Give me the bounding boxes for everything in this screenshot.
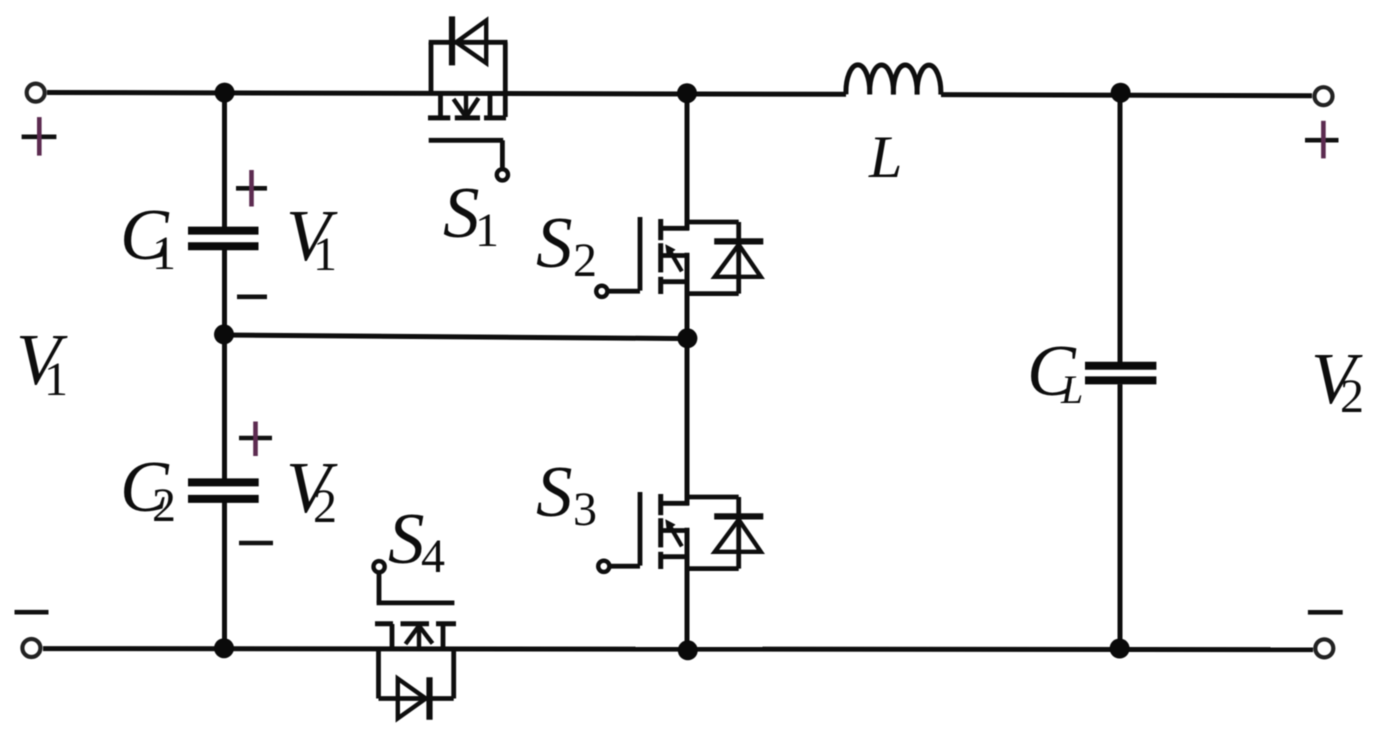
label V1 outer xyxy=(16,319,68,406)
label V1 inner xyxy=(286,195,338,281)
wire C1 to mid node xyxy=(222,250,227,479)
plus sign top-right xyxy=(1305,121,1339,159)
label S1 xyxy=(443,172,499,257)
svg-text:S: S xyxy=(536,202,573,283)
inductor L xyxy=(846,65,941,95)
svg-text:1: 1 xyxy=(152,227,176,280)
svg-text:2: 2 xyxy=(573,234,597,287)
junction node top-right xyxy=(1111,83,1131,103)
wire top rail xyxy=(47,93,846,95)
capacitor CL xyxy=(1085,366,1156,381)
label V2 outer xyxy=(1311,338,1364,423)
label C1 xyxy=(120,194,176,280)
wire bottom rail xyxy=(43,649,1313,650)
wire S-branch drain S1S2 xyxy=(685,93,690,231)
svg-text:2: 2 xyxy=(313,480,337,533)
terminal top-right xyxy=(1315,87,1333,105)
svg-text:1: 1 xyxy=(475,204,499,257)
label CL xyxy=(1027,330,1083,412)
wire C2 to bottom rail xyxy=(222,502,227,648)
plus sign above C2 xyxy=(239,422,272,457)
transistor S1 (MOSFET with body diode, in top rail) xyxy=(428,16,508,180)
transistor S4 (MOSFET with body diode, in bottom rail) xyxy=(374,561,457,720)
svg-text:1: 1 xyxy=(44,353,68,406)
svg-text:3: 3 xyxy=(573,483,597,536)
svg-text:4: 4 xyxy=(421,530,445,583)
junction node bottom-S xyxy=(678,640,698,660)
label V2 inner xyxy=(286,447,338,533)
junction node mid-left xyxy=(214,324,234,344)
minus sign bottom-right xyxy=(1308,610,1343,615)
label S3 xyxy=(536,451,597,536)
transistor S3 (MOSFET with body diode, vertical) xyxy=(598,492,763,572)
svg-text:L: L xyxy=(1060,367,1083,412)
plus sign top-left xyxy=(22,117,57,156)
label S2 xyxy=(536,202,597,287)
terminal bottom-right xyxy=(1315,639,1333,657)
wire left branch upper xyxy=(222,93,227,228)
wire S-branch S2 to S3 xyxy=(685,253,690,506)
svg-text:2: 2 xyxy=(1340,370,1364,423)
transistor S2 (MOSFET with body diode, vertical) xyxy=(596,217,763,297)
wire right branch upper xyxy=(1118,94,1123,363)
label C2 xyxy=(120,446,176,532)
svg-text:L: L xyxy=(868,124,902,190)
wire S-branch S3 source to bottom xyxy=(685,528,690,649)
wire middle node xyxy=(224,335,687,339)
label S4 xyxy=(388,498,445,583)
svg-text:S: S xyxy=(388,498,425,579)
minus sign bottom-left xyxy=(15,610,49,615)
svg-text:S: S xyxy=(536,451,573,532)
junction node mid-S xyxy=(677,328,697,348)
plus sign above C1 xyxy=(236,170,267,207)
terminal top-left xyxy=(27,84,45,102)
junction node bottom-left xyxy=(214,638,234,658)
wire right branch lower xyxy=(1118,384,1123,648)
junction node bottom-right xyxy=(1110,639,1130,659)
minus sign below C2 xyxy=(239,541,273,546)
svg-text:2: 2 xyxy=(152,479,176,532)
junction node top-mid xyxy=(677,83,697,103)
svg-text:1: 1 xyxy=(313,228,337,281)
capacitor C1 xyxy=(188,231,259,247)
capacitor C2 xyxy=(188,482,259,499)
minus sign below C1 xyxy=(237,294,267,299)
junction node top-left xyxy=(215,83,235,103)
terminal bottom-left xyxy=(22,639,40,657)
wire top rail right of inductor xyxy=(941,95,1312,96)
